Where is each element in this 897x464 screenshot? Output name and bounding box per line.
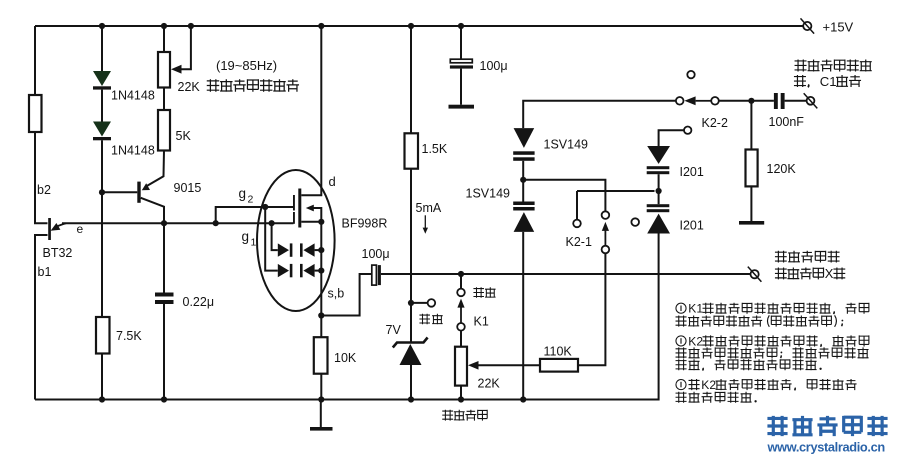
svg-text:K1: K1 xyxy=(688,302,703,316)
switch K1 arrow xyxy=(457,299,464,308)
svg-text:BT32: BT32 xyxy=(43,246,73,260)
junction dot source xyxy=(318,219,324,225)
wire K2-2 lower contact to I201 xyxy=(659,130,684,146)
wire 200 to BT32 b2 xyxy=(35,132,48,223)
wire 9015 base xyxy=(102,191,137,193)
wire colC mid xyxy=(658,174,660,204)
wire BT32 b1 to ground rail xyxy=(35,235,48,400)
resistor R 200 xyxy=(29,95,42,132)
label saopin fanwei CJK xyxy=(442,410,453,421)
svg-text:10K: 10K xyxy=(334,351,357,365)
junction dot rail x321 xyxy=(318,23,324,29)
potentiometer 22K sweep body xyxy=(455,347,467,386)
svg-text:120K: 120K xyxy=(767,162,797,176)
resistor R 120K xyxy=(746,150,758,187)
junction dot K1 row xyxy=(458,271,464,277)
svg-text:I201: I201 xyxy=(680,219,704,233)
protection diode pair row1 xyxy=(278,243,289,256)
wire K2-2 pole to 100nF xyxy=(719,100,774,102)
svg-text:110K: 110K xyxy=(544,345,573,359)
wire between diodes xyxy=(101,90,103,122)
svg-text:K2: K2 xyxy=(688,334,703,348)
wire K2-1 row1 xyxy=(523,180,605,212)
terminal +15V xyxy=(801,18,815,33)
wire 120K to ground xyxy=(750,186,752,221)
transistor BT32 (unijunction) bar xyxy=(48,218,51,240)
wire g2 branch xyxy=(216,207,294,223)
BF998R channel bar xyxy=(298,189,301,228)
wire 10K to ground rail xyxy=(320,374,322,400)
resistor R 110K xyxy=(540,359,578,372)
wire diode column to 7.5K xyxy=(101,140,103,317)
varactor D 1SV149 upper xyxy=(514,128,535,148)
svg-text:1SV149: 1SV149 xyxy=(544,138,589,152)
resistor R 1.5K xyxy=(405,133,419,168)
varactor D I201 lower xyxy=(647,204,670,207)
label lu C1 dingpian CJK line2 xyxy=(794,75,806,87)
note line6 xyxy=(676,380,686,390)
svg-text:1N4148: 1N4148 xyxy=(111,89,155,103)
switch K1 work contact circle xyxy=(457,289,465,297)
label juchibo shuchu CJK xyxy=(775,251,787,263)
junction dot ground x102 xyxy=(99,396,105,402)
wire 0.22u column xyxy=(163,223,165,292)
label gongzuo CJK xyxy=(473,287,484,298)
junction dot test branch xyxy=(408,300,414,306)
svg-text:1: 1 xyxy=(251,237,257,249)
svg-text:100μ: 100μ xyxy=(362,247,390,261)
svg-text:+15V: +15V xyxy=(823,20,854,35)
svg-text:1N4148: 1N4148 xyxy=(111,144,155,158)
protection diode pair row2 xyxy=(278,264,289,277)
switch K2-1 pole circle xyxy=(602,246,610,254)
wire 100u top column xyxy=(460,26,462,59)
junction dot ground x461 xyxy=(458,396,464,402)
svg-text:0.22μ: 0.22μ xyxy=(183,295,215,309)
junction dot rail x102 xyxy=(99,23,105,29)
transistor Q 9015 emitter lead xyxy=(146,151,165,187)
capacitor C 0.22u xyxy=(155,293,174,297)
svg-text:1.5K: 1.5K xyxy=(422,142,448,156)
switch K2-2 lower contact circle xyxy=(684,127,691,134)
junction dot base 9015 xyxy=(99,189,105,195)
wire 100u to end bar xyxy=(460,69,462,105)
svg-text:100nF: 100nF xyxy=(769,115,805,129)
junction dot ground x411 xyxy=(408,396,414,402)
note line3 xyxy=(676,336,686,346)
capacitor C 100nF xyxy=(774,93,778,109)
wire source column to 10K xyxy=(320,222,322,337)
wire 1.5K down to zener xyxy=(410,169,412,342)
wire g1 to protection diodes row1 xyxy=(272,223,278,250)
svg-text:7.5K: 7.5K xyxy=(116,329,142,343)
wire 100nF to terminal xyxy=(785,100,807,102)
wire 0.22u to ground rail xyxy=(163,304,165,400)
switch contact test circle xyxy=(428,299,436,307)
switch K2-1 arrow xyxy=(602,222,609,231)
switch K2-1 left contact xyxy=(576,191,578,220)
junction dot g2 branch x216 xyxy=(213,220,219,226)
wire colA to ground rail xyxy=(522,232,524,400)
BF998R drain lead xyxy=(301,26,321,195)
svg-text:K2-2: K2-2 xyxy=(702,116,728,130)
wire test contact stub xyxy=(411,302,428,304)
svg-text:7V: 7V xyxy=(386,323,402,337)
potentiometer 22K body xyxy=(158,52,170,88)
switch K2-2 left contact circle xyxy=(676,97,684,105)
note line7 xyxy=(676,392,687,403)
junction dot ground x164 xyxy=(161,396,167,402)
svg-text:22K: 22K xyxy=(478,377,501,391)
label ceshi CJK xyxy=(419,314,430,325)
22K sweep wiper arrow xyxy=(468,361,479,370)
BF998R gate g1 electrode xyxy=(293,212,295,224)
BT32 emitter arrow xyxy=(54,223,66,228)
label sawtooth frequency adjust CJK xyxy=(207,79,219,91)
wire 7.5K to ground rail xyxy=(101,354,103,400)
junction dot ground x523 xyxy=(520,396,526,402)
junction dot 120K branch xyxy=(748,98,754,104)
ground symbol xyxy=(320,400,322,428)
junction dot colC mid xyxy=(656,188,662,194)
junction dot g1 protection xyxy=(269,220,275,226)
wire top +15V rail xyxy=(35,25,803,27)
svg-text:C1: C1 xyxy=(820,74,837,89)
logo kuangshi shouyinji CJK blue xyxy=(767,416,787,436)
wire K1 pole to 22K pot xyxy=(460,331,462,347)
wire 22K pot to ground rail xyxy=(460,386,462,400)
wire 120K top xyxy=(750,101,752,150)
op-amp style envelope BF998R ellipse xyxy=(257,170,335,311)
svg-text:g: g xyxy=(239,186,247,201)
svg-text:22K: 22K xyxy=(178,80,201,94)
junction dot prot row2 xyxy=(318,268,324,274)
svg-text:K2: K2 xyxy=(701,378,716,392)
svg-text:5K: 5K xyxy=(176,129,192,143)
junction dot ground x321 xyxy=(318,396,324,402)
svg-text:(19~85Hz): (19~85Hz) xyxy=(216,58,277,73)
wire 110K to K2-1 pole xyxy=(578,253,605,365)
diode D1 1N4148 xyxy=(93,71,111,86)
wire 22K to 5K xyxy=(163,88,165,111)
label jie gaopin zhendang dianlu CJK line1 xyxy=(795,59,807,71)
BF998R source lead xyxy=(301,221,321,223)
22K pot wiper arrow xyxy=(171,65,182,74)
svg-text:X: X xyxy=(825,266,834,281)
5mA current arrow xyxy=(424,215,426,230)
svg-text:K2-1: K2-1 xyxy=(566,235,592,249)
note line1 xyxy=(676,303,686,313)
transistor Q 9015 base bar xyxy=(137,182,140,203)
terminal sawtooth output xyxy=(748,267,762,282)
svg-text:g: g xyxy=(242,229,250,244)
varactor D I201 upper xyxy=(647,146,670,164)
switch K2-1 empty contact xyxy=(631,218,639,226)
wire 22K pot top xyxy=(163,26,165,52)
svg-text:d: d xyxy=(329,174,336,189)
svg-text:b2: b2 xyxy=(37,183,51,197)
svg-text:www.crystalradio.cn: www.crystalradio.cn xyxy=(767,440,886,455)
varactor D 1SV149 lower xyxy=(513,202,534,206)
switch K2-2 empty contact xyxy=(687,71,694,78)
junction dot sb branch xyxy=(318,312,324,318)
100u ground bar xyxy=(449,105,475,109)
wire output row xyxy=(381,273,751,275)
switch K2-2 arrow xyxy=(684,96,695,105)
capacitor C 100u filter xyxy=(450,59,472,63)
junction dot rail x461 xyxy=(458,23,464,29)
switch K2-2 pole circle xyxy=(711,97,719,105)
diode D2 1N4148 xyxy=(93,122,111,137)
resistor R 10K xyxy=(314,337,328,374)
note line2 xyxy=(676,316,687,327)
wire emitter row / g1 line xyxy=(62,222,294,224)
wire coupling branch to 100u xyxy=(321,274,372,316)
svg-text:b1: b1 xyxy=(38,265,52,279)
switch K2-1 top contact circle xyxy=(602,211,610,219)
junction dot prot row1 xyxy=(318,247,324,253)
wire zener to ground rail xyxy=(410,365,412,400)
note line4 xyxy=(676,347,687,358)
zener diode 7V xyxy=(393,338,428,348)
wire diode column top xyxy=(101,26,103,71)
svg-text:5mA: 5mA xyxy=(416,201,442,215)
BF998R gate g2 electrode xyxy=(293,195,295,211)
svg-text:BF998R: BF998R xyxy=(342,217,388,231)
terminal C1 connection xyxy=(804,93,818,108)
junction dot rail x164 xyxy=(161,23,167,29)
svg-text:100μ: 100μ xyxy=(480,59,508,73)
ground bar 120K xyxy=(739,221,764,225)
wire bottom ground rail xyxy=(35,234,659,400)
wire K2-2 row left vertical xyxy=(523,101,676,128)
wire 1.5K top xyxy=(410,26,412,133)
svg-text:s,b: s,b xyxy=(328,287,345,301)
junction dot rail x411 xyxy=(408,23,414,29)
switch K1 work contact stub xyxy=(460,274,462,289)
svg-text:1SV149: 1SV149 xyxy=(466,186,511,200)
junction dot collector x164 xyxy=(161,220,167,226)
svg-text:K1: K1 xyxy=(474,315,489,329)
capacitor C 100u coupling xyxy=(372,265,377,285)
svg-text:9015: 9015 xyxy=(174,181,202,195)
resistor R 5K xyxy=(158,110,170,151)
junction dot g2 protection xyxy=(262,204,268,210)
switch K1 pole circle xyxy=(457,323,465,331)
transistor Q 9015 collector lead xyxy=(141,198,164,223)
junction dot rail x191 xyxy=(188,23,194,29)
note line5 xyxy=(676,359,687,370)
wire left edge upper (b2 branch) xyxy=(34,26,36,95)
junction dot colA mid xyxy=(520,177,526,183)
BF998R bulk arrow xyxy=(306,205,314,212)
resistor R 7.5K xyxy=(96,317,110,354)
wire row2 to I201 junction xyxy=(577,190,655,192)
wire varactor mid colA xyxy=(522,161,524,202)
svg-text:2: 2 xyxy=(248,194,254,206)
wire g2 to protection diodes row2 xyxy=(265,207,278,271)
label jie shiboqi X zhou CJK xyxy=(775,268,787,280)
svg-text:I201: I201 xyxy=(680,165,704,179)
